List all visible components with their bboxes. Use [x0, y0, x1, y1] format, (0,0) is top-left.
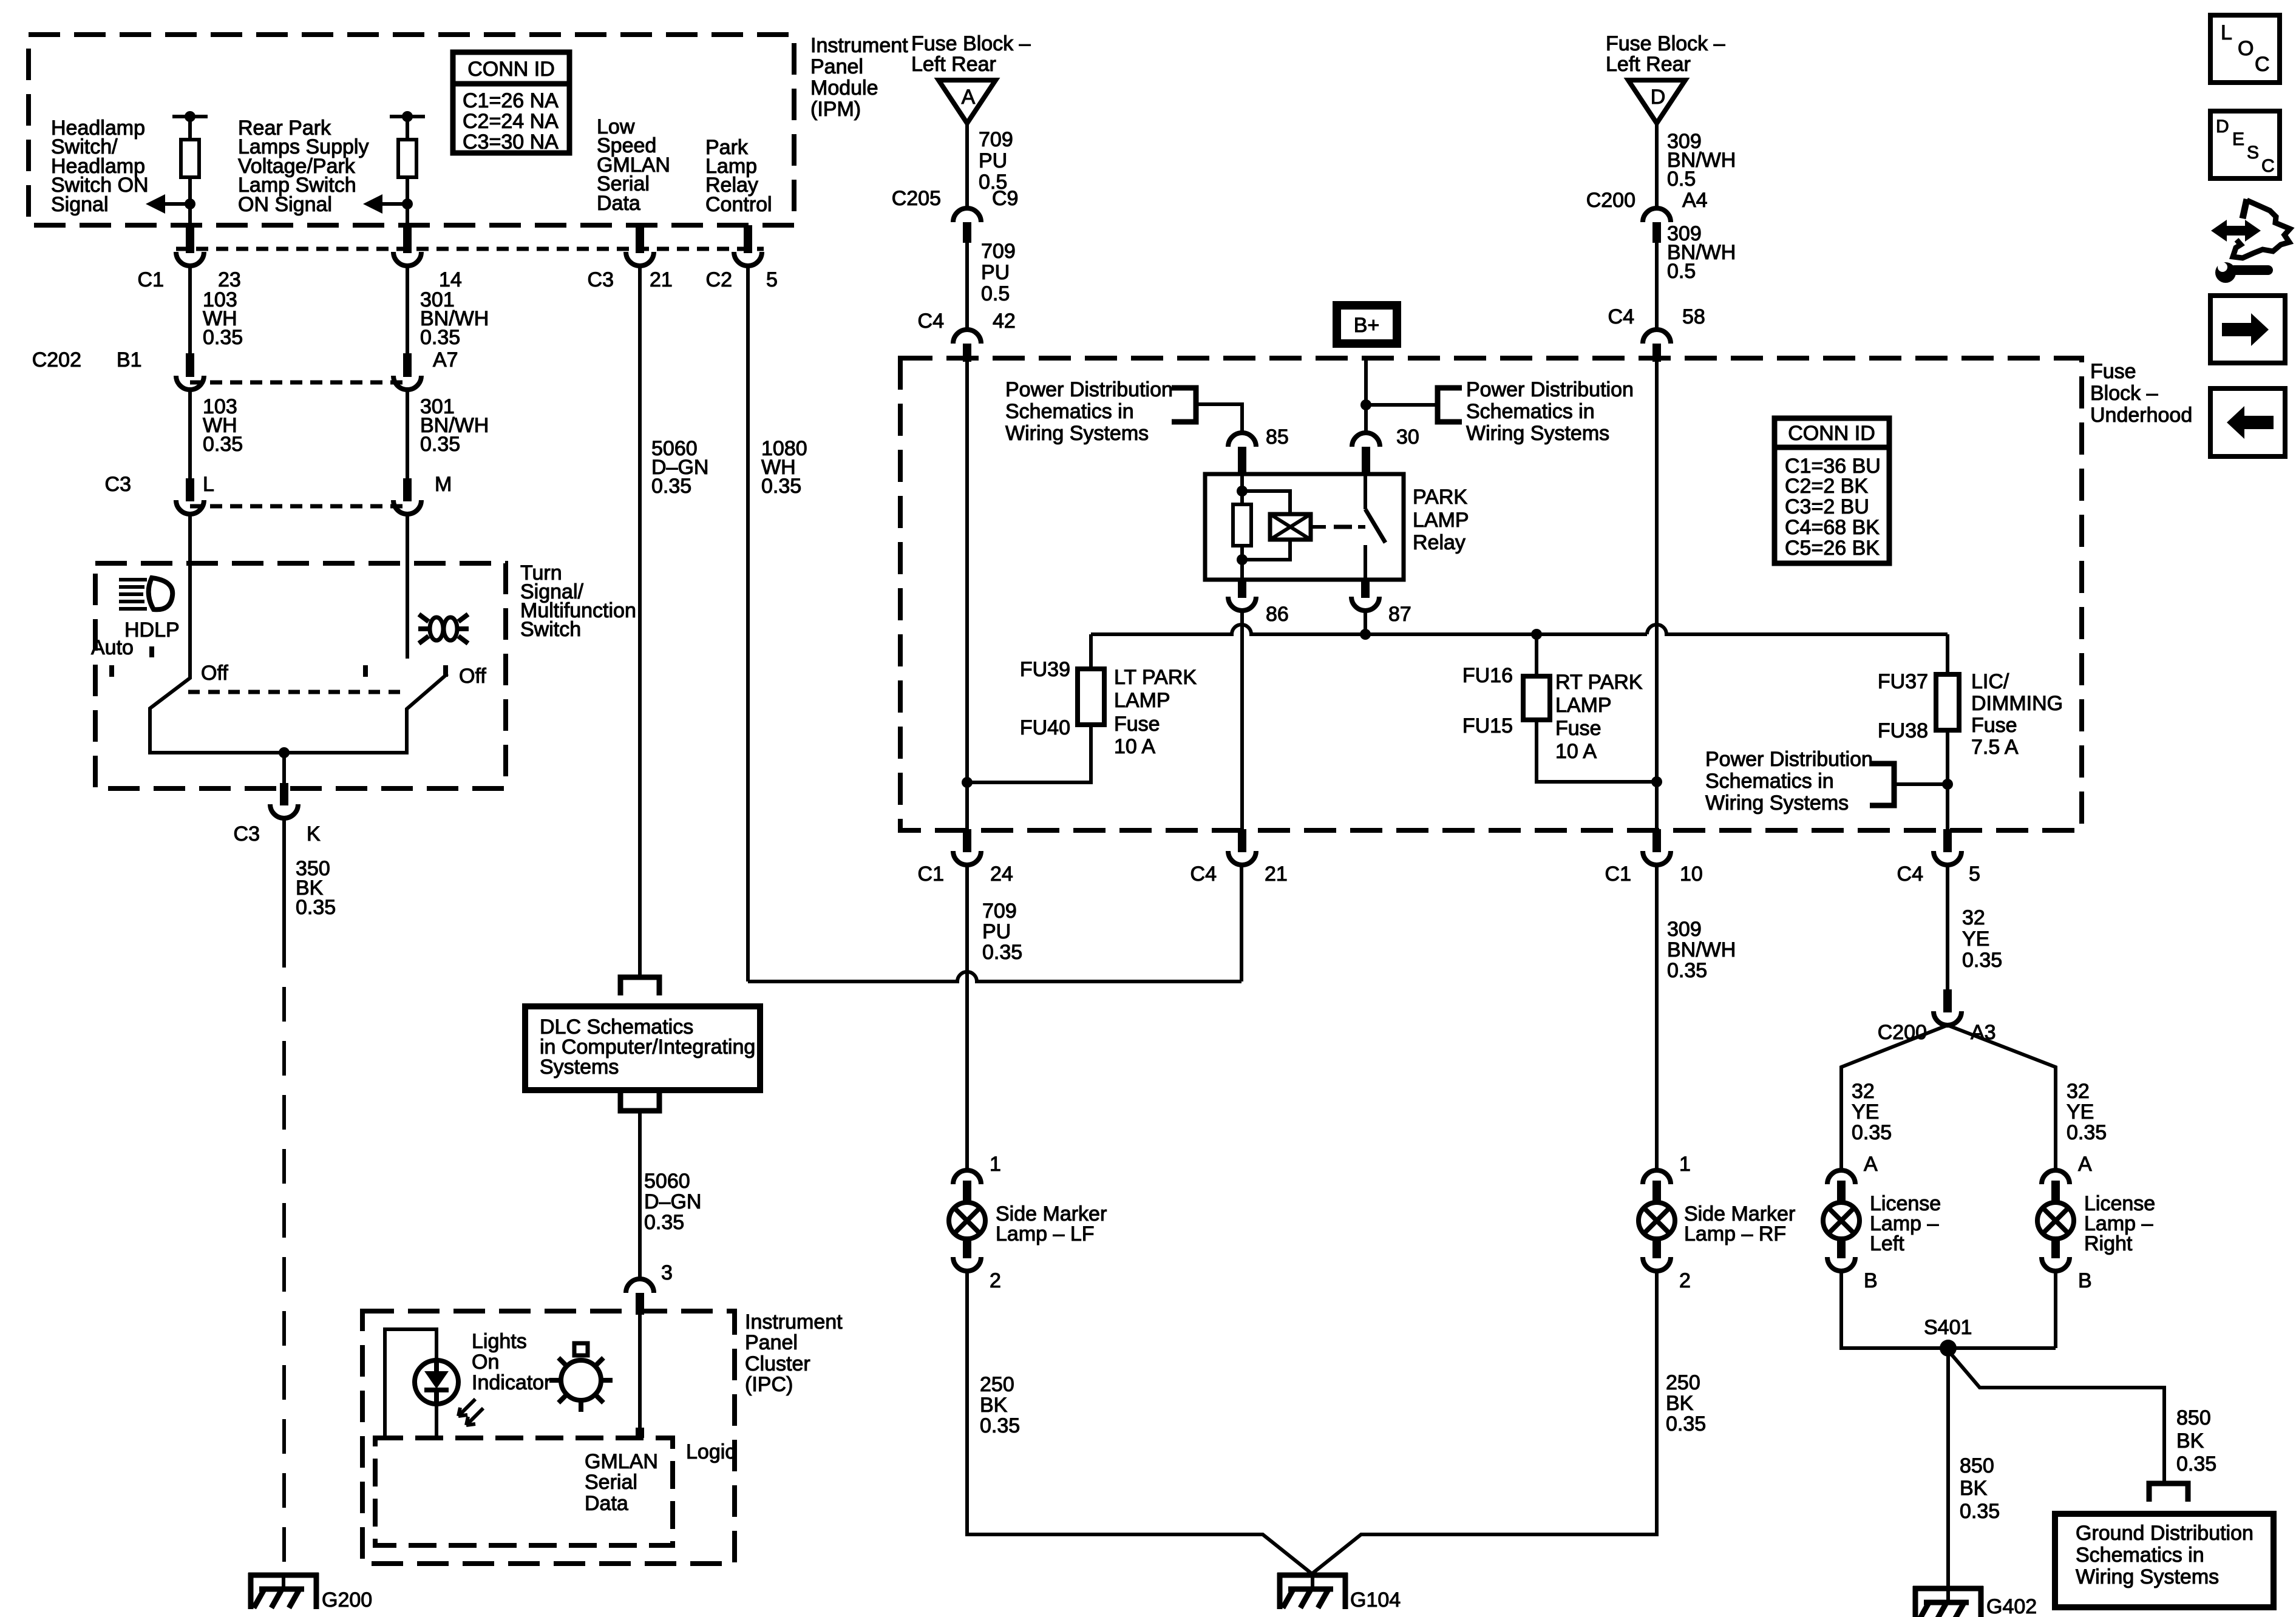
- svg-text:Lights: Lights: [472, 1330, 527, 1353]
- icon: forward arrow box: [2210, 296, 2285, 363]
- relay coil to switch dashed link: [1311, 525, 1326, 529]
- svg-text:309: 309: [1667, 918, 1702, 941]
- svg-text:5: 5: [766, 268, 778, 291]
- svg-text:2: 2: [1679, 1269, 1691, 1292]
- svg-text:On: On: [472, 1351, 499, 1374]
- svg-text:0.35: 0.35: [980, 1414, 1020, 1437]
- svg-text:C: C: [2255, 53, 2270, 76]
- wire 103 WH segment 2: [188, 389, 192, 478]
- svg-text:709: 709: [979, 128, 1013, 151]
- wire from C4 21 down to control run: [1240, 864, 1243, 981]
- svg-text:Schematics in: Schematics in: [1005, 400, 1134, 423]
- node: internal supply bar: [390, 115, 425, 118]
- svg-text:C3=2 BU: C3=2 BU: [1785, 495, 1869, 518]
- svg-text:PU: PU: [979, 149, 1007, 172]
- connector pin 3 (IPC): [626, 1279, 654, 1315]
- switch position tick (right inner): [363, 665, 368, 677]
- svg-text:C1: C1: [918, 863, 944, 886]
- svg-text:Module: Module: [810, 76, 878, 100]
- relay coil element: [1270, 514, 1311, 540]
- svg-text:Fuse: Fuse: [1114, 713, 1160, 736]
- wire 32 YE from C4 5: [1946, 864, 1949, 995]
- connector face dashed line (IPM C1/C3/C2 row): [176, 247, 764, 251]
- connector face dashed line (C202 row): [190, 381, 407, 385]
- svg-text:Logic: Logic: [686, 1440, 735, 1463]
- svg-text:Fuse: Fuse: [1971, 714, 2017, 737]
- wire 250 BK LF: [967, 1269, 1311, 1573]
- connector face dashed line (C3 row): [190, 504, 407, 509]
- bracket: power distribution (fuse): [1870, 764, 1894, 805]
- svg-text:S401: S401: [1924, 1316, 1972, 1339]
- svg-text:Schematics in: Schematics in: [1705, 770, 1834, 793]
- svg-text:10 A: 10 A: [1555, 740, 1597, 763]
- svg-text:709: 709: [982, 900, 1017, 923]
- connector C202 pin A7: [393, 353, 421, 390]
- svg-text:10: 10: [1680, 863, 1703, 886]
- wire 350 BK dashed run to G200: [282, 933, 286, 1575]
- bracket: power distribution (left): [1172, 388, 1196, 422]
- svg-text:A: A: [2078, 1153, 2092, 1176]
- wire 1080 WH: park lamp relay control: [746, 265, 750, 981]
- svg-text:C4: C4: [1897, 863, 1923, 886]
- svg-text:21: 21: [650, 268, 673, 291]
- wire FU15 output to 309 BN/WH run: [1537, 721, 1657, 782]
- svg-text:850: 850: [2176, 1406, 2211, 1429]
- svg-text:Control: Control: [705, 193, 772, 216]
- wire 709 PU 0.5 upper: [965, 123, 969, 211]
- svg-text:0.35: 0.35: [2176, 1453, 2216, 1476]
- module box: Instrument Panel Module (IPM): [29, 35, 794, 225]
- mechanical coupling dashed line: [188, 690, 401, 694]
- svg-text:Power Distribution: Power Distribution: [1466, 378, 1634, 401]
- wire 103 WH segment 1: [188, 265, 192, 354]
- svg-text:Left: Left: [1870, 1232, 1904, 1255]
- connector C1 pin 14: [393, 225, 421, 266]
- connector C3 pin 21: [626, 225, 654, 266]
- switch common wire: [150, 751, 407, 754]
- icon: back arrow box: [2210, 388, 2285, 456]
- svg-text:Wiring Systems: Wiring Systems: [1466, 422, 1609, 445]
- svg-text:C2=2 BK: C2=2 BK: [1785, 475, 1868, 498]
- svg-text:21: 21: [1265, 863, 1288, 886]
- lamp: License Lamp - Right: [2037, 1170, 2074, 1271]
- svg-text:B: B: [1864, 1269, 1878, 1292]
- node: FU38 output / power distribution tap: [1942, 779, 1953, 790]
- module box: Turn Signal/Multifunction Switch: [95, 563, 506, 788]
- svg-text:C1: C1: [1605, 863, 1631, 886]
- svg-text:Relay: Relay: [1413, 531, 1466, 554]
- svg-text:10 A: 10 A: [1114, 735, 1155, 758]
- svg-text:0.35: 0.35: [2067, 1121, 2107, 1144]
- wire FU40 output to 709 PU run: [967, 726, 1091, 782]
- svg-text:0.5: 0.5: [1667, 168, 1696, 191]
- svg-text:Serial: Serial: [585, 1471, 637, 1494]
- wire 350 BK: [282, 818, 286, 933]
- wire FU38 output down: [1946, 731, 1949, 832]
- svg-text:Instrument: Instrument: [810, 34, 908, 57]
- node: relay coil top junction: [1237, 486, 1248, 497]
- icon: DESC box: [2210, 111, 2280, 178]
- svg-text:G402: G402: [1986, 1595, 2037, 1617]
- svg-text:0.35: 0.35: [1852, 1121, 1892, 1144]
- svg-text:Systems: Systems: [540, 1056, 619, 1079]
- svg-text:Power Distribution: Power Distribution: [1705, 748, 1873, 771]
- svg-text:ON Signal: ON Signal: [238, 193, 332, 216]
- svg-text:32: 32: [1852, 1080, 1875, 1103]
- svg-text:Right: Right: [2084, 1232, 2133, 1255]
- wire bus corner to FU37: [1946, 634, 1949, 674]
- svg-text:Schematics in: Schematics in: [2076, 1544, 2204, 1567]
- svg-text:(IPM): (IPM): [810, 98, 861, 121]
- relay coil branch: [1240, 474, 1244, 580]
- bracket: power distribution (right): [1366, 403, 1438, 407]
- svg-text:3: 3: [661, 1261, 673, 1284]
- svg-text:C4: C4: [918, 310, 944, 333]
- svg-text:Fuse Block –: Fuse Block –: [911, 32, 1031, 55]
- wire 850 BK to G402: [1946, 1348, 1950, 1588]
- svg-text:LAMP: LAMP: [1413, 509, 1469, 532]
- svg-text:Signal: Signal: [51, 193, 109, 216]
- svg-text:Fuse Block –: Fuse Block –: [1606, 32, 1725, 55]
- wire from B+ to relay pin 30: [1364, 358, 1368, 405]
- svg-text:86: 86: [1266, 603, 1289, 626]
- lamp: License Lamp - Left: [1823, 1170, 1860, 1271]
- svg-text:CONN ID: CONN ID: [1788, 422, 1875, 445]
- svg-text:1: 1: [990, 1153, 1001, 1176]
- svg-text:C200: C200: [1878, 1021, 1927, 1044]
- svg-text:YE: YE: [2067, 1100, 2094, 1124]
- connector C4 pin 58: [1643, 330, 1671, 362]
- svg-text:24: 24: [990, 863, 1013, 886]
- svg-text:B1: B1: [117, 348, 142, 371]
- svg-text:30: 30: [1396, 425, 1419, 449]
- svg-text:A: A: [1864, 1153, 1878, 1176]
- svg-text:D: D: [2216, 117, 2229, 137]
- connector C2 pin 5: [734, 225, 762, 266]
- LED: Lights On Indicator: [415, 1360, 458, 1404]
- connector C4 pin 21: [1228, 829, 1256, 865]
- grid triangle A: [939, 80, 996, 123]
- bracket above DLC box: [620, 977, 659, 995]
- icon: headlamp symbol: [119, 578, 172, 609]
- box: Ground Distribution Schematics in Wiring Systems: [2055, 1514, 2274, 1607]
- svg-text:BK: BK: [1666, 1392, 1694, 1415]
- svg-text:A4: A4: [1682, 189, 1708, 212]
- wire 709 PU through underhood box: [965, 362, 969, 832]
- connector relay pin 85: [1228, 433, 1256, 474]
- svg-text:S: S: [2247, 143, 2259, 163]
- wire 309 BN/WH 0.5 upper: [1655, 123, 1659, 211]
- wire 301 BN/WH segment 2: [406, 389, 409, 478]
- svg-text:DIMMING: DIMMING: [1971, 692, 2063, 715]
- svg-text:42: 42: [993, 310, 1016, 333]
- resistor: headlamp switch signal pull-up: [146, 111, 208, 228]
- svg-text:Off: Off: [459, 665, 486, 688]
- module box: Instrument Panel Cluster (IPC): [362, 1311, 735, 1564]
- svg-text:0.5: 0.5: [1667, 260, 1696, 283]
- svg-text:K: K: [307, 822, 321, 846]
- wire 709 PU 0.5 lower: [965, 243, 969, 332]
- svg-text:5: 5: [1969, 863, 1980, 886]
- connector C205 pin C9: [953, 208, 981, 243]
- svg-text:Fuse: Fuse: [2090, 360, 2136, 383]
- relay coil loop: [1242, 491, 1290, 514]
- svg-text:0.35: 0.35: [982, 941, 1022, 964]
- connector relay pin 86: [1228, 580, 1256, 611]
- node: relay coil bottom junction: [1237, 554, 1248, 565]
- ground G104: [1277, 1573, 1348, 1609]
- svg-text:0.35: 0.35: [420, 433, 460, 456]
- fuse FU16/FU15: RT PARK LAMP Fuse 10A: [1523, 675, 1550, 721]
- wire 709 PU to side marker LF: [965, 864, 969, 1172]
- switch blade left (headlamp switch): [150, 563, 190, 754]
- wire 309 BN/WH through underhood box: [1655, 362, 1659, 832]
- node: FU15 output / 309 BN/WH junction: [1651, 776, 1662, 787]
- node: pin 87 / bus junction: [1360, 629, 1371, 640]
- splice S401: [1940, 1340, 1957, 1357]
- svg-text:C4: C4: [1190, 863, 1217, 886]
- icon: park lamps symbol: [418, 614, 469, 643]
- svg-text:CONN ID: CONN ID: [467, 58, 555, 81]
- lamp: Side Marker Lamp - RF: [1639, 1170, 1675, 1271]
- connector C1 pin 24: [953, 829, 981, 865]
- svg-text:FU16: FU16: [1462, 664, 1513, 687]
- wire 250 BK RF: [1313, 1269, 1657, 1573]
- svg-text:0.35: 0.35: [296, 896, 336, 919]
- svg-text:FU37: FU37: [1878, 670, 1928, 693]
- svg-text:PU: PU: [982, 920, 1011, 943]
- svg-text:C1=26 NA: C1=26 NA: [463, 89, 559, 112]
- svg-text:LAMP: LAMP: [1114, 689, 1170, 712]
- svg-text:YE: YE: [1852, 1100, 1879, 1124]
- switch position tick (Auto): [109, 665, 114, 677]
- svg-text:M: M: [435, 473, 452, 496]
- svg-text:85: 85: [1266, 425, 1289, 449]
- svg-text:58: 58: [1682, 305, 1705, 328]
- wire 309 BN/WH 0.5 lower: [1655, 243, 1659, 332]
- node: internal supply bar: [172, 115, 208, 118]
- connector C1 pin 23: [176, 225, 204, 266]
- bracket above ground distribution box: [2149, 1483, 2188, 1502]
- ground G402: [1913, 1586, 1983, 1617]
- svg-text:C4: C4: [1608, 305, 1634, 328]
- svg-text:7.5 A: 7.5 A: [1971, 736, 2019, 759]
- node: FU16 tap junction: [1531, 629, 1542, 640]
- bus stub to FU16: [1535, 634, 1538, 676]
- svg-text:LAMP: LAMP: [1555, 694, 1612, 717]
- icon: hand with wrench (service): [2211, 199, 2290, 283]
- svg-text:0.35: 0.35: [761, 475, 801, 498]
- wire 850 BK branch to ground distribution: [1948, 1351, 2164, 1483]
- svg-text:850: 850: [1960, 1454, 1994, 1477]
- wire 309 BN/WH to side marker RF: [1655, 864, 1659, 1172]
- svg-text:Left Rear: Left Rear: [1606, 53, 1691, 76]
- relay resistor: [1233, 504, 1251, 546]
- svg-text:GMLAN: GMLAN: [585, 1450, 658, 1473]
- wire V split to license lamps: [1841, 1025, 1948, 1172]
- svg-text:BK: BK: [980, 1394, 1008, 1417]
- bus corner to FU39: [1089, 634, 1093, 669]
- svg-text:FU39: FU39: [1020, 658, 1070, 681]
- svg-text:C2: C2: [706, 268, 732, 291]
- svg-text:32: 32: [2067, 1080, 2090, 1103]
- svg-text:L: L: [2221, 21, 2232, 44]
- svg-text:0.35: 0.35: [1666, 1412, 1706, 1436]
- svg-text:C3: C3: [234, 822, 260, 846]
- grid triangle D: [1628, 80, 1685, 123]
- connector C4 pin 5: [1934, 829, 1961, 865]
- svg-text:Indicator: Indicator: [472, 1371, 551, 1394]
- svg-text:Underhood: Underhood: [2090, 404, 2192, 427]
- logic dashed box: [375, 1438, 673, 1545]
- svg-text:0.35: 0.35: [203, 433, 243, 456]
- svg-text:B: B: [2078, 1269, 2092, 1292]
- connector C3 pin K: [270, 783, 298, 818]
- connector relay pin 30: [1352, 433, 1380, 474]
- connector C200 pin A3 (splice split): [1934, 989, 1961, 1025]
- svg-text:PARK: PARK: [1413, 486, 1467, 509]
- wire: pin 86 control run down: [1240, 611, 1244, 832]
- svg-text:Auto: Auto: [91, 636, 134, 659]
- svg-text:250: 250: [980, 1373, 1014, 1396]
- svg-text:C9: C9: [992, 187, 1018, 210]
- svg-text:0.35: 0.35: [1962, 949, 2002, 972]
- svg-text:C3: C3: [105, 473, 131, 496]
- svg-text:Ground Distribution: Ground Distribution: [2076, 1522, 2254, 1545]
- svg-text:87: 87: [1388, 603, 1411, 626]
- svg-text:Left Rear: Left Rear: [911, 53, 996, 76]
- wire: pin 87 to bus: [1364, 611, 1367, 634]
- svg-text:Panel: Panel: [810, 55, 863, 78]
- svg-text:C2=24 NA: C2=24 NA: [463, 110, 559, 133]
- svg-text:Fuse: Fuse: [1555, 717, 1601, 740]
- LED loop wiring: [385, 1329, 436, 1438]
- svg-text:BK: BK: [1960, 1477, 1988, 1500]
- svg-text:FU38: FU38: [1878, 719, 1928, 742]
- svg-text:RT PARK: RT PARK: [1555, 671, 1643, 694]
- svg-text:C3: C3: [588, 268, 614, 291]
- svg-text:C200: C200: [1586, 189, 1635, 212]
- power symbol: B+: [1333, 301, 1401, 348]
- svg-text:Off: Off: [201, 662, 228, 685]
- bus wire (fused feed): [1091, 625, 1647, 634]
- svg-text:PU: PU: [981, 261, 1010, 284]
- connector relay pin 87: [1351, 580, 1379, 611]
- svg-text:Panel: Panel: [745, 1331, 798, 1354]
- icon: LOC box: [2210, 15, 2280, 83]
- svg-text:32: 32: [1962, 906, 1985, 929]
- node: FU40 output / 709 PU junction: [962, 777, 973, 788]
- svg-text:Data: Data: [585, 1492, 628, 1515]
- svg-text:BN/WH: BN/WH: [1667, 938, 1736, 961]
- svg-text:0.35: 0.35: [420, 326, 460, 349]
- svg-text:Lamp – RF: Lamp – RF: [1684, 1222, 1786, 1246]
- svg-text:G104: G104: [1350, 1588, 1401, 1612]
- switch blade right (park lamp switch): [406, 563, 409, 659]
- svg-text:5060: 5060: [644, 1170, 690, 1193]
- svg-text:C4=68 BK: C4=68 BK: [1785, 516, 1880, 539]
- svg-text:D: D: [1651, 86, 1666, 109]
- table: CONN ID (IPM): [453, 52, 569, 154]
- LED emission arrows: [458, 1399, 483, 1425]
- svg-text:0.35: 0.35: [651, 475, 691, 498]
- svg-text:0.5: 0.5: [981, 282, 1010, 305]
- svg-text:Wiring Systems: Wiring Systems: [1705, 792, 1849, 815]
- wire 5060 D-GN lower: [638, 1111, 642, 1281]
- svg-text:Lamp – LF: Lamp – LF: [996, 1222, 1095, 1246]
- svg-text:2: 2: [990, 1269, 1001, 1292]
- fuse FU37/FU38: LIC/DIMMING Fuse 7.5A: [1936, 673, 1959, 731]
- switch position tick (right Off): [443, 665, 448, 677]
- svg-text:G200: G200: [322, 1588, 372, 1612]
- svg-text:FU15: FU15: [1462, 714, 1513, 737]
- relay: PARK LAMP Relay box: [1205, 474, 1404, 580]
- connector C4 pin 42: [953, 330, 981, 362]
- wires to splice S401: [1841, 1269, 2056, 1348]
- svg-text:C202: C202: [32, 348, 81, 371]
- svg-text:C3=30 NA: C3=30 NA: [463, 131, 559, 154]
- connector C200 pin A4: [1643, 208, 1671, 243]
- connector C202 pin B1: [176, 353, 204, 390]
- svg-text:L: L: [203, 473, 214, 496]
- svg-text:FU40: FU40: [1020, 716, 1070, 739]
- svg-text:Block –: Block –: [2090, 382, 2158, 405]
- svg-text:LT PARK: LT PARK: [1114, 666, 1197, 689]
- svg-text:BK: BK: [2176, 1429, 2204, 1453]
- svg-text:250: 250: [1666, 1371, 1700, 1394]
- svg-text:C5=26 BK: C5=26 BK: [1785, 537, 1880, 560]
- connector C3 pin M: [393, 478, 421, 514]
- svg-text:Schematics in: Schematics in: [1466, 400, 1595, 423]
- svg-text:0.35: 0.35: [1960, 1500, 2000, 1523]
- node: switch common junction: [279, 747, 290, 758]
- svg-text:Data: Data: [597, 192, 640, 215]
- svg-text:0.35: 0.35: [203, 326, 243, 349]
- icon: bulb with rays: [549, 1343, 613, 1412]
- svg-text:Power Distribution: Power Distribution: [1005, 378, 1173, 401]
- svg-text:C: C: [2261, 156, 2275, 176]
- bracket below DLC box: [620, 1093, 659, 1111]
- svg-text:Cluster: Cluster: [745, 1352, 810, 1375]
- box: DLC Schematics in Computer/Integrating Systems: [525, 1006, 760, 1090]
- wire to relay pin 30: [1364, 405, 1368, 432]
- connector C3 pin L: [176, 478, 204, 514]
- node: B+ feed junction: [1360, 399, 1371, 410]
- svg-text:O: O: [2238, 37, 2254, 60]
- svg-text:E: E: [2232, 129, 2244, 149]
- wire 5060 D-GN upper: [638, 265, 642, 977]
- relay switch contact: [1364, 474, 1367, 509]
- svg-text:1: 1: [1679, 1153, 1691, 1176]
- fuse FU39/FU40: LT PARK LAMP Fuse 10A: [1078, 668, 1104, 726]
- connector C1 pin 10: [1643, 829, 1671, 865]
- lamp: Side Marker Lamp - LF: [949, 1170, 985, 1271]
- svg-text:C205: C205: [892, 187, 941, 210]
- svg-text:LIC/: LIC/: [1971, 670, 2009, 693]
- svg-text:Wiring Systems: Wiring Systems: [2076, 1565, 2219, 1588]
- svg-text:(IPC): (IPC): [745, 1373, 793, 1396]
- svg-text:Wiring Systems: Wiring Systems: [1005, 422, 1149, 445]
- svg-text:C1: C1: [138, 268, 164, 291]
- switch position tick (HDLP): [149, 646, 154, 657]
- module box: Fuse Block - Underhood: [900, 358, 2082, 830]
- svg-text:A: A: [962, 86, 976, 109]
- svg-text:Switch: Switch: [520, 618, 581, 641]
- svg-text:Instrument: Instrument: [745, 1310, 843, 1334]
- svg-text:A7: A7: [433, 348, 458, 371]
- svg-text:YE: YE: [1962, 927, 1989, 951]
- svg-text:709: 709: [981, 240, 1016, 263]
